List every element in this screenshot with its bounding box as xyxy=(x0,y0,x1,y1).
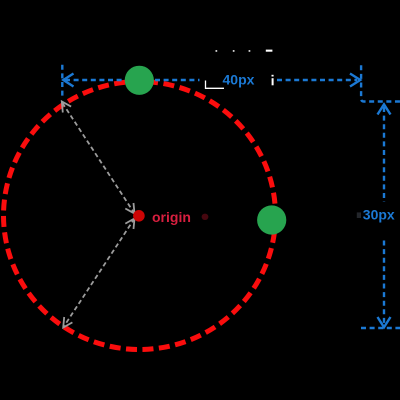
faint dark remnant left of 30px label xyxy=(357,212,361,218)
red dashed ellipse (circle path) xyxy=(4,82,276,350)
top dimension line: left arrowhead xyxy=(63,74,73,87)
top dimension: right arrowhead xyxy=(350,74,360,87)
gray arrow lower-left (origin to ellipse point) xyxy=(63,219,134,328)
top-right vertical extension with elbow xyxy=(361,65,400,101)
red origin dot xyxy=(133,210,145,222)
right dimension vertical dashes lower xyxy=(383,241,385,325)
blue dimension graphics xyxy=(62,65,400,328)
white small marks top xyxy=(216,50,274,86)
svg-text:30px: 30px xyxy=(363,207,395,223)
svg-text:40px: 40px xyxy=(223,71,255,87)
top dimension line right dashes xyxy=(277,79,357,81)
green dot top xyxy=(125,66,154,95)
white leader for 40px label xyxy=(206,81,225,89)
faint dark red remnant right of origin label xyxy=(202,214,209,220)
top-left vertical extension line xyxy=(61,65,63,98)
bottom-right horizontal reference line xyxy=(361,327,400,329)
top dimension line left dashes xyxy=(65,79,124,81)
svg-text:origin: origin xyxy=(152,209,191,225)
gray arrow upper-left (origin to ellipse point) xyxy=(62,102,135,214)
right dimension: down arrowhead xyxy=(378,317,391,327)
right dimension: up arrowhead xyxy=(378,104,391,114)
right dimension vertical dashes upper xyxy=(383,107,385,202)
green dot right xyxy=(257,205,286,234)
